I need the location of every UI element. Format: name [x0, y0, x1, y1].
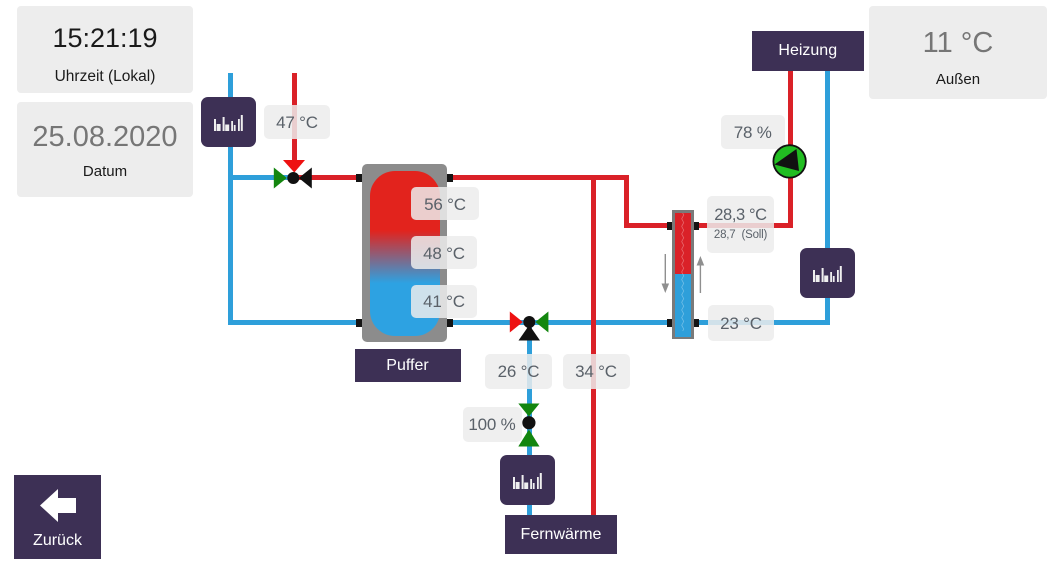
wire red vertical drop (R4) — [624, 175, 629, 228]
label 26C — [485, 354, 552, 389]
label 56C — [411, 187, 479, 220]
heat exchanger — [672, 210, 694, 339]
box Puffer — [355, 349, 461, 382]
label 78pct — [721, 115, 785, 149]
wire blue horizontal to mixing valve (B2) — [228, 175, 290, 180]
label 48C — [411, 236, 477, 269]
wire red vertical to Heizung with pump (R7) — [788, 70, 793, 228]
node stub exchanger left blue — [667, 319, 673, 327]
label 41C — [411, 285, 477, 319]
valve V3 2-way green valve on Fernwaerme line — [514, 400, 544, 450]
node stub exchanger right blue — [693, 319, 699, 327]
wire blue vertical right to Heizung (B4) — [825, 70, 830, 325]
node stub tank right red — [447, 174, 453, 182]
box Heizung — [752, 31, 865, 71]
trend icon 3 (bottom, Fernwaerme) — [500, 455, 555, 505]
button Zurueck with back arrow — [14, 475, 101, 559]
valve V2 3-way valve on return line — [505, 306, 555, 346]
arrow down left of exchanger — [658, 252, 674, 296]
node stub tank right blue — [447, 319, 453, 327]
wire blue supply vertical left (B1) — [228, 73, 233, 326]
label 28,3C with Soll — [707, 196, 774, 253]
panel outside temperature — [869, 6, 1047, 99]
wire blue vertical down to Fernwaerme (B5) — [527, 322, 532, 515]
label 23C — [708, 305, 774, 341]
buffer tank (Puffer) — [362, 164, 447, 342]
pump P1 — [771, 143, 809, 181]
wire red vertical down to Fernwaerme (R8) — [591, 175, 596, 515]
box Fernwaerme — [505, 515, 617, 554]
node stub tank left blue — [356, 319, 362, 327]
wire red vertical top-left into valve V1 (R1) — [292, 73, 297, 163]
arrow up right of exchanger — [693, 252, 709, 296]
node stub tank left red — [356, 174, 362, 182]
wire red horizontal through heat exchanger (R5/R6) — [624, 223, 792, 228]
trend icon 1 (top left, blue supply) — [201, 97, 256, 147]
wire red horizontal through Puffer tank (R2/R3) — [293, 175, 629, 180]
label 100pct — [463, 407, 522, 442]
label 47C — [264, 105, 330, 139]
wire blue long return horizontal (B3) — [228, 320, 830, 325]
label 34C — [563, 354, 630, 389]
panel clock — [17, 6, 193, 93]
panel date — [17, 102, 193, 197]
trend icon 2 (right, heating return) — [800, 248, 855, 298]
node stub exchanger right red — [693, 222, 699, 231]
valve V1 3-way mixing valve with red inlet arrow — [268, 152, 320, 196]
node stub exchanger left red — [667, 222, 673, 231]
